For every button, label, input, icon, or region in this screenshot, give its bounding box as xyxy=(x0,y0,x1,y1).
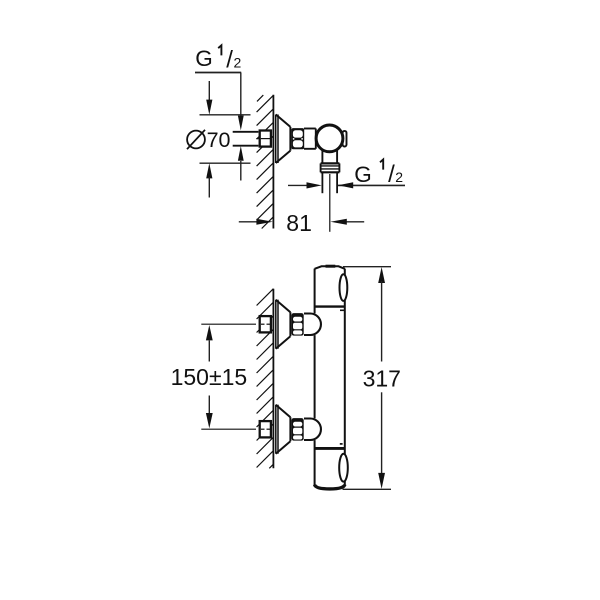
wall face line (bottom view) xyxy=(272,289,274,469)
leader underline G1/2 right with arrow xyxy=(338,184,405,186)
check valve dome lower xyxy=(304,419,321,441)
svg-text:/: / xyxy=(226,47,233,74)
tick below top separation xyxy=(340,309,345,311)
dimension 317 extension lines xyxy=(343,267,392,490)
supply pipe xyxy=(233,132,259,146)
dimension 150±15 xyxy=(208,341,210,362)
outlet thread stub xyxy=(322,172,337,193)
escutcheon cone (top view) xyxy=(276,115,278,164)
svg-text:G: G xyxy=(354,162,372,187)
neck below body xyxy=(322,150,337,163)
bar top xyxy=(315,266,345,269)
left arrow of outlet G1/2 xyxy=(288,184,308,186)
nut upper union xyxy=(292,313,304,336)
svg-text:70: 70 xyxy=(207,128,231,152)
separation line top cap xyxy=(315,305,345,307)
svg-text:/: / xyxy=(388,161,395,188)
hose nut bands xyxy=(321,163,340,172)
check valve dome upper xyxy=(304,314,321,336)
nipple upper union xyxy=(260,316,271,332)
collar between nut and valve body xyxy=(304,129,316,149)
separation line bottom cap xyxy=(315,447,345,450)
escutcheon upper union xyxy=(276,300,278,349)
leader line G1/2 top xyxy=(195,73,241,118)
bar left edge xyxy=(314,269,316,314)
valve body circle xyxy=(316,125,343,152)
nut lower union xyxy=(292,418,304,441)
label G 1/2 (top left) xyxy=(195,45,241,73)
bar right edge xyxy=(344,269,346,486)
text Ø70 xyxy=(187,130,205,149)
svg-text:81: 81 xyxy=(286,210,312,236)
dimension 317 arrows and line xyxy=(378,267,385,283)
outlet tab right of body xyxy=(343,131,347,147)
arrow up to pipe bottom (G1/2) xyxy=(238,146,244,161)
label G 1/2 (right) xyxy=(354,160,403,189)
dimension 81 xyxy=(239,221,364,223)
svg-text:150±15: 150±15 xyxy=(171,364,248,390)
escutcheon lower union xyxy=(276,405,278,454)
outlet center line xyxy=(329,174,331,232)
threaded nipple in wall xyxy=(260,131,271,147)
svg-text:2: 2 xyxy=(395,169,403,185)
Ø70 top arrow xyxy=(208,81,210,101)
wall hatching (top view) xyxy=(257,95,274,228)
temperature knob (top right of bar) xyxy=(340,274,348,301)
tick above bottom separation xyxy=(340,443,343,445)
svg-text:G: G xyxy=(195,46,213,71)
center line upper union xyxy=(201,323,256,325)
svg-text:2: 2 xyxy=(234,54,242,70)
union nut (top view) xyxy=(291,128,304,149)
dimension Ø70 extension lines xyxy=(200,115,251,163)
center line lower union xyxy=(201,428,256,430)
arrow down to pipe top (G1/2) xyxy=(238,116,244,131)
nipple lower union xyxy=(260,421,271,437)
nipple thread dashed line xyxy=(256,138,270,140)
svg-text:317: 317 xyxy=(363,365,401,391)
bar bottom cap xyxy=(315,485,345,489)
wall face line (top view) xyxy=(272,95,274,229)
mixer bar body xyxy=(315,266,345,485)
bar top thick segment xyxy=(326,265,336,268)
wall hatching (bottom view) xyxy=(257,289,274,469)
volume knob (bottom right of bar) xyxy=(339,454,348,482)
Ø70 bottom arrow xyxy=(206,163,212,178)
